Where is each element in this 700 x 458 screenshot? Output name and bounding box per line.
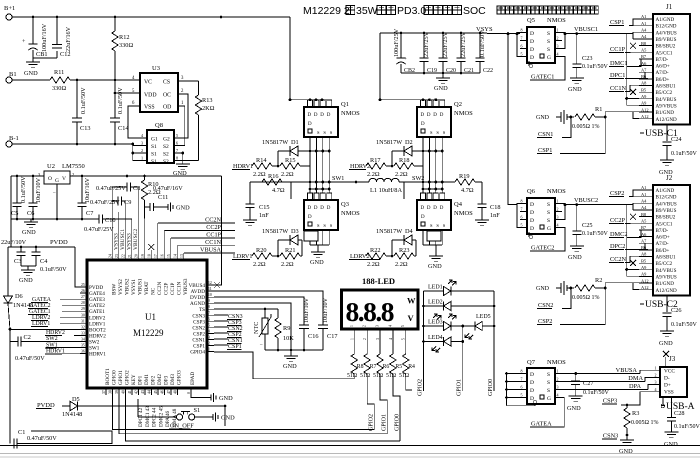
svg-text:R4: R4 [408,364,415,370]
svg-text:GPIO0: GPIO0 [112,370,118,385]
svg-text:HDRV1: HDRV1 [89,352,106,358]
resistor R19 [455,179,475,185]
svg-text:45: 45 [154,390,158,394]
svg-text:V: V [62,176,66,182]
svg-text:41: 41 [128,390,132,394]
capacitor C15 [249,182,251,204]
svg-text:0.47uF/25V: 0.47uF/25V [84,226,114,233]
svg-text:G1: G1 [151,137,158,143]
svg-text:SOC: SOC [463,5,486,17]
svg-text:3: 3 [141,141,143,146]
ground under C15 [243,219,257,221]
wire GPIO4 run to R8 [214,352,354,379]
svg-text:A9: A9 [641,94,647,99]
wire U3 VSS to Q8 pin4 [128,106,147,138]
wire U2 input rail [11,175,44,177]
svg-text:HDRV1: HDRV1 [233,163,253,170]
svg-text:DP1: DP1 [138,375,144,385]
svg-text:34: 34 [81,337,85,341]
svg-text:D: D [440,206,444,211]
wire Q2 drain bus [379,33,381,100]
wire DP DM pins into bus [138,388,140,391]
svg-text:VSYS2: VSYS2 [118,279,124,295]
svg-text:DPA 46: DPA 46 [165,410,171,427]
svg-text:7: 7 [521,36,523,41]
no-connect X row B8 J2 [630,214,636,220]
svg-text:R15: R15 [285,157,296,164]
svg-text:A4/VBUS: A4/VBUS [656,201,677,207]
wire U3 CS to R13 [178,80,199,82]
svg-text:2.2Ω: 2.2Ω [395,261,408,268]
wire bottom loop from C1 [17,431,112,444]
svg-text:51Ω: 51Ω [360,373,371,379]
svg-text:10uF/10V: 10uF/10V [35,177,42,203]
svg-text:51Ω: 51Ω [347,373,358,379]
svg-text:26: 26 [81,289,85,293]
svg-text:24: 24 [108,254,112,258]
svg-text:GPIO4: GPIO4 [190,350,205,356]
svg-text:D: D [530,55,534,61]
ground under C25 [570,245,584,247]
capacitor C6 [32,176,34,203]
svg-text:D: D [530,39,534,45]
wire R6 to GPIO1 column [380,374,387,434]
wire Q5 left pin hook [517,33,520,57]
pin 12 VBUS4 [207,284,214,286]
svg-text:3: 3 [208,335,210,339]
svg-text:G: G [55,178,59,184]
svg-text:VCC: VCC [664,368,675,374]
no-connect X on NC pin [148,244,154,250]
wire pin24 to C8 left [111,187,113,254]
svg-text:CSP1: CSP1 [538,147,552,154]
svg-text:GPIO0: GPIO0 [395,414,401,431]
svg-text:D: D [427,113,431,118]
svg-text:D6: D6 [15,293,23,300]
svg-text:20: 20 [134,254,138,258]
svg-text:G: G [547,396,551,402]
svg-text:A9/VBUS: A9/VBUS [656,274,677,280]
svg-text:C7: C7 [86,210,93,217]
svg-text:42: 42 [135,390,139,394]
transistor Q4 NMOS [421,193,426,200]
resistor R12 [114,17,116,31]
net CC1N [176,246,178,254]
svg-text:VBUSC2: VBUSC2 [574,197,598,204]
svg-text:R19: R19 [459,173,470,180]
svg-text:C18: C18 [490,204,501,211]
capacitor C4 [35,247,37,252]
svg-text:0.1uF/50V: 0.1uF/50V [671,151,698,157]
wire Q7 pin2 to J3 D- net DMA [562,381,645,383]
pin 48 GPIO3 [177,388,179,395]
svg-text:2.2Ω: 2.2Ω [281,171,294,178]
op-amp U1 M12229 SoC [87,260,207,388]
svg-text:4: 4 [557,223,559,228]
svg-text:A1/GND: A1/GND [656,188,675,194]
svg-text:51Ω: 51Ω [386,373,397,379]
svg-text:2.2Ω: 2.2Ω [367,171,380,178]
svg-text:D: D [320,113,324,118]
svg-text:2: 2 [557,207,559,212]
svg-text:D: D [421,113,425,118]
svg-text:4.7Ω: 4.7Ω [461,187,474,194]
switch S1 ON_OFF [177,414,183,420]
resistor R23 [394,253,414,259]
no-connect stub above J3 [665,357,667,367]
svg-text:R7: R7 [370,364,377,370]
svg-text:3: 3 [557,44,559,49]
svg-text:1N4148: 1N4148 [62,411,82,418]
svg-text:NMOS: NMOS [454,210,473,217]
svg-text:SW2: SW2 [46,336,58,342]
wire Q1 pins vertical [309,137,311,193]
svg-text:A12: A12 [641,285,649,290]
wire Q6 gate to GATEC2 [531,228,565,252]
wire VSS to R3 [621,392,653,405]
pin 33 HDRV2 [80,334,87,336]
pin 26 GATE4 [80,292,87,294]
svg-text:CC2N: CC2N [610,256,627,263]
svg-text:18: 18 [147,254,151,258]
svg-text:8: 8 [176,156,178,161]
svg-text:B7/D-: B7/D- [656,228,669,234]
display pins [353,329,355,354]
capacitor C25 [576,205,578,231]
svg-text:9: 9 [208,299,210,303]
wire Q3 to gnd [317,245,319,252]
svg-text:A7/D-: A7/D- [656,70,669,76]
svg-text:R23: R23 [399,247,410,254]
svg-text:DM3: DM3 [170,374,176,385]
svg-text:R12: R12 [119,34,130,41]
svg-text:R1: R1 [595,106,602,113]
resistor R20 [252,253,272,259]
svg-text:Q6: Q6 [527,188,536,195]
company name [497,6,505,14]
wire B+ rail to pin12 [145,175,222,177]
svg-text:D: D [308,206,312,211]
svg-text:VSYS1: VSYS1 [131,279,137,295]
resistor R13 [198,81,200,95]
resistor R15 [280,163,300,169]
svg-text:27: 27 [81,295,85,299]
svg-text:1N5817W: 1N5817W [376,139,402,146]
svg-text:EPAD: EPAD [190,372,196,385]
svg-text:Q3: Q3 [341,201,349,208]
ground under R3 [620,439,634,441]
svg-text:0.1uF/50V: 0.1uF/50V [40,266,67,273]
svg-text:CS: CS [163,80,170,86]
svg-text:35W: 35W [356,5,378,17]
svg-text:C23: C23 [582,55,593,62]
wire LED right bus GPIO0 [493,291,495,391]
svg-text:LED1: LED1 [428,285,443,291]
svg-text:GPIO1: GPIO1 [118,370,124,385]
transistor Q2 NMOS [421,100,426,107]
svg-text:D: D [308,122,312,127]
svg-text:R14: R14 [256,157,267,164]
svg-text:B9/VBUS: B9/VBUS [656,37,677,43]
svg-text:Q5: Q5 [527,17,535,24]
svg-text:A12/GND: A12/GND [656,117,678,123]
wire pin22 to C9 [124,201,126,254]
svg-text:B7: B7 [641,225,647,230]
svg-text:R11: R11 [54,69,64,76]
svg-text:2: 2 [363,338,367,340]
svg-text:J3: J3 [669,355,676,363]
svg-text:R5: R5 [395,364,402,370]
svg-text:S2: S2 [163,152,169,158]
svg-text:6: 6 [521,215,523,220]
svg-text:D: D [530,388,534,394]
svg-text:VBUSA: VBUSA [616,367,638,374]
svg-text:1: 1 [557,369,559,374]
svg-text:3: 3 [376,325,380,327]
wire pin20 to C8 [137,187,139,254]
svg-text:8: 8 [208,305,210,309]
net VBUSA top [183,253,185,254]
svg-text:22: 22 [121,254,125,258]
svg-text:OD: OD [163,105,171,111]
wire left column [7,247,9,296]
pin 25 PVDD [80,286,87,288]
svg-text:GND: GND [434,85,448,92]
svg-text:GND: GND [664,441,678,448]
capacitor C12 [56,17,58,44]
ground under C23 [570,77,584,79]
capacitor C2 bootstrap [9,329,11,341]
wire VDD pin5 [115,92,140,94]
svg-text:GPIO3: GPIO3 [177,370,183,385]
svg-text:BSW: BSW [111,284,117,295]
svg-text:GPIO1: GPIO1 [457,379,463,396]
svg-text:LED2: LED2 [428,300,443,306]
ground under C27 [569,395,583,397]
capacitor C18 [481,182,483,204]
svg-text:D: D [530,372,534,378]
svg-text:100uF/25V: 100uF/25V [393,28,400,57]
pin 9 AGND [207,302,214,304]
svg-text:15: 15 [167,254,171,258]
svg-text:B12/GND: B12/GND [656,24,677,30]
svg-text:GPIO2: GPIO2 [369,414,375,431]
svg-text:G: G [547,55,551,61]
svg-text:B8/SBU2: B8/SBU2 [656,215,676,221]
svg-text:CSP1: CSP1 [610,19,624,26]
svg-text:8: 8 [521,28,523,33]
svg-text:CSN2: CSN2 [538,302,553,309]
svg-text:C13: C13 [80,125,91,132]
svg-text:330Ω: 330Ω [52,85,66,92]
svg-text:A8/SBU1: A8/SBU1 [656,255,677,261]
svg-text:11: 11 [208,287,212,291]
pin 36 HDRV1 [80,353,87,355]
no-connect X row A8 [630,89,636,95]
svg-text:A12: A12 [641,278,649,283]
svg-text:S: S [547,47,550,53]
capacitor C20 [442,33,444,58]
pin 5 CSN2 [207,326,214,328]
wire BOOT2 from C2 node [9,328,12,331]
wire Q7 pin1 to J3 VCC net VBUSA [562,373,640,375]
svg-text:39: 39 [115,390,119,394]
svg-text:0.47uF/50V: 0.47uF/50V [27,435,57,442]
svg-text:3: 3 [655,380,657,385]
wire SW1 lower bus [310,188,329,190]
capacitor C13 [76,80,78,118]
svg-text:DMC1: DMC1 [610,60,628,67]
wire cap bank bottom [401,72,480,74]
resistor R18 [394,163,414,169]
svg-text:23: 23 [115,254,119,258]
svg-text:0.1uF/50V: 0.1uF/50V [20,176,27,203]
svg-text:D: D [314,113,318,118]
svg-text:GND: GND [428,263,442,270]
no-connect X on pin 12 [214,282,220,288]
svg-text:3: 3 [557,215,559,220]
svg-text:B8/SBU2: B8/SBU2 [656,44,676,50]
svg-text:4: 4 [389,338,393,340]
svg-text:1N5817W: 1N5817W [262,139,288,146]
svg-text:19: 19 [141,254,145,258]
svg-text:A6: A6 [641,232,647,237]
svg-text:VBAT: VBAT [144,281,150,295]
svg-text:10: 10 [208,293,212,297]
svg-text:VSS: VSS [664,390,674,396]
svg-text:C16: C16 [308,333,319,340]
svg-text:PVDD: PVDD [37,402,55,409]
svg-text:B1/GND: B1/GND [656,110,675,116]
svg-text:W: W [407,296,416,306]
svg-text:CC1P: CC1P [206,232,221,239]
svg-text:S: S [547,380,550,386]
svg-text:B9/VBUS: B9/VBUS [656,208,677,214]
wire pin23 up [118,212,120,254]
pin 18 NC [150,254,152,260]
wire R2 to J2 GND pins [605,283,639,288]
svg-text:188-LED: 188-LED [362,276,395,286]
svg-text:5: 5 [401,325,405,327]
ground below Q8 pin7 [181,152,184,155]
wire SW2 lower bus [423,188,442,190]
svg-text:A6: A6 [641,61,647,66]
pin 32 BOOT2 [80,328,87,330]
resistor R21 [280,253,300,259]
resistor R14 [252,163,272,169]
capacitor C24 [666,125,668,142]
pin 44 DP2 [151,388,153,395]
svg-text:5: 5 [402,338,406,340]
svg-text:2.2Ω: 2.2Ω [281,261,294,268]
pin 6 CSP3 [207,320,214,322]
resistor R17 [366,163,386,169]
svg-text:40: 40 [122,390,126,394]
pin 47 DM3 [170,388,172,395]
net GATEA bottom [553,398,564,428]
svg-text:A1: A1 [641,21,646,26]
svg-text:R20: R20 [256,247,267,254]
pin 31 LDRV1 [80,322,87,324]
svg-text:S: S [547,372,550,378]
svg-text:D: D [530,380,534,386]
svg-text:22uF/10V: 22uF/10V [1,239,27,246]
wire U3 OC to Q8 pin5 [174,94,188,138]
wire B- rail [12,143,133,145]
svg-text:BOOT1: BOOT1 [105,368,111,385]
svg-text:R18: R18 [399,157,410,164]
wire Q1 source bus to D1 [310,150,329,152]
svg-text:13: 13 [180,254,184,258]
svg-text:A7: A7 [641,67,647,72]
svg-text:C14: C14 [118,125,129,132]
svg-text:G: G [547,226,551,232]
svg-text:D: D [308,215,312,220]
svg-text:8.8.8: 8.8.8 [346,296,394,327]
svg-text:G2: G2 [163,137,170,143]
svg-text:GATEC1: GATEC1 [531,74,554,81]
resistor R22 [366,253,386,259]
svg-text:GND: GND [536,115,550,121]
svg-text:16: 16 [160,254,164,258]
svg-text:D: D [327,206,331,211]
resistor R9 [275,318,281,338]
pin 27 GATE3 [80,298,87,300]
svg-text:1: 1 [350,338,354,340]
wire Q3 source down [309,230,311,245]
svg-text:GND: GND [283,363,297,370]
svg-text:Q8: Q8 [155,122,163,129]
svg-text:GND: GND [567,405,581,412]
svg-text:4.7Ω: 4.7Ω [272,187,285,194]
svg-text:_: _ [259,341,263,346]
svg-text:2: 2 [363,325,367,327]
pin 2 CSP1 [207,345,214,347]
wire U2 gnd pin [56,184,58,219]
svg-text:7: 7 [176,148,178,153]
svg-text:VSS: VSS [144,105,155,111]
resistor R16 [262,179,282,185]
svg-text:GND: GND [659,340,673,347]
svg-text:LDRV2: LDRV2 [350,253,369,260]
svg-text:PD3.0: PD3.0 [397,5,426,17]
svg-text:D5: D5 [72,396,80,403]
svg-text:28: 28 [81,301,85,305]
svg-text:GND: GND [619,448,633,455]
svg-text:R8: R8 [357,364,364,370]
svg-text:A5: A5 [641,218,647,223]
svg-text:R21: R21 [285,247,296,254]
ground under C3 C4 [21,265,36,267]
svg-text:22uF/25V: 22uF/25V [442,31,449,57]
svg-text:NMOS: NMOS [454,110,473,117]
svg-text:+: + [404,57,407,62]
svg-text:1nF: 1nF [259,212,269,219]
svg-text:GPIO1: GPIO1 [382,414,388,431]
svg-text:CSP2: CSP2 [538,318,552,325]
diode D5 1N4148 [70,401,78,410]
svg-text:Q2: Q2 [454,101,462,108]
resistor R4 [403,354,409,374]
svg-text:_: _ [52,189,56,194]
svg-text:C8: C8 [133,185,140,192]
svg-text:D: D [327,113,331,118]
svg-text:GND: GND [19,277,33,284]
svg-text:B6/D+: B6/D+ [656,77,670,83]
svg-text:GND: GND [24,70,38,77]
wire pin21 to C10 [131,219,133,254]
svg-text:4: 4 [655,387,657,392]
